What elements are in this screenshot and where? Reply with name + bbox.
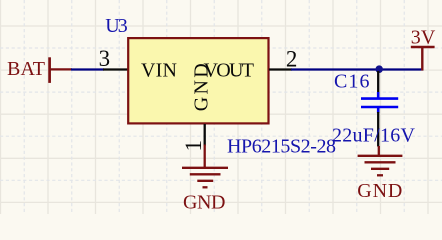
capacitor C16 pin b <box>377 112 379 147</box>
svg-text:22uF/16V: 22uF/16V <box>332 125 416 147</box>
svg-text:GND: GND <box>191 63 213 111</box>
junction node <box>375 65 383 73</box>
svg-text:BAT: BAT <box>7 58 45 80</box>
power port 3V stem <box>421 47 423 71</box>
wire pin1 to gnd <box>204 145 206 168</box>
capacitor C16 <box>361 92 398 113</box>
power port 3V bar <box>411 46 435 48</box>
svg-text:3: 3 <box>99 46 111 71</box>
port BAT bar <box>48 57 51 83</box>
wire VOUT to 3V <box>291 68 423 70</box>
pin 1 <box>204 124 206 146</box>
wire BAT red segment <box>49 68 72 70</box>
svg-text:HP6215S2-28: HP6215S2-28 <box>227 136 336 158</box>
wire BAT to pin3 <box>71 68 104 70</box>
svg-text:GND: GND <box>357 180 402 202</box>
wire cap to gnd <box>378 146 380 156</box>
svg-text:GND: GND <box>183 191 226 213</box>
pin 2 <box>269 68 292 70</box>
svg-text:U3: U3 <box>105 15 128 37</box>
svg-text:C16: C16 <box>334 71 370 93</box>
pin 3 <box>103 68 128 70</box>
svg-text:VIN: VIN <box>141 59 177 81</box>
svg-text:1: 1 <box>181 140 206 152</box>
op-amp U1 body rectangle <box>128 38 268 123</box>
ground symbol left <box>182 168 228 188</box>
ground symbol right <box>358 156 403 176</box>
capacitor C16 pin a <box>377 71 379 93</box>
svg-text:3V: 3V <box>411 26 436 48</box>
svg-text:2: 2 <box>286 46 298 71</box>
